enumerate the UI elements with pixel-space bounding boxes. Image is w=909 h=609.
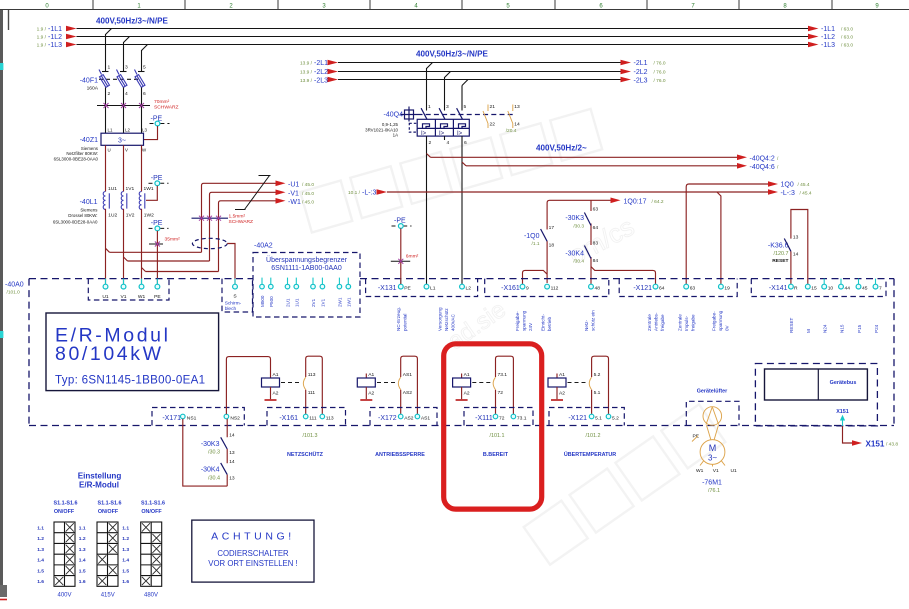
- svg-text:-1L2: -1L2: [48, 34, 62, 41]
- svg-text:schütz ein: schütz ein: [591, 310, 596, 331]
- svg-text:Gerätelüfter: Gerätelüfter: [697, 388, 728, 394]
- svg-text:spannung: spannung: [718, 310, 723, 331]
- terminal -X141:7: [875, 279, 877, 284]
- svg-text:B.BEREIT: B.BEREIT: [483, 452, 509, 458]
- svg-text:15: 15: [811, 286, 817, 292]
- svg-text:I>: I>: [439, 131, 445, 137]
- internal contact 111/113: [303, 356, 322, 414]
- svg-text:U1: U1: [731, 468, 738, 474]
- svg-text:-X121: -X121: [568, 415, 587, 422]
- svg-text:1.6: 1.6: [37, 579, 44, 585]
- terminal strip -X141 box: [751, 279, 886, 297]
- svg-text:13: 13: [514, 104, 520, 110]
- left border cyan tick B: [0, 331, 3, 338]
- svg-text:-30K4: -30K4: [201, 467, 220, 474]
- svg-text:10.1 /: 10.1 /: [348, 190, 361, 196]
- terminal -X141:45: [858, 279, 860, 284]
- -40A2 pin 2W1: [337, 278, 342, 307]
- svg-text:1.1: 1.1: [37, 526, 44, 532]
- svg-text:S1.1-S1.6: S1.1-S1.6: [98, 501, 122, 507]
- svg-text:14: 14: [793, 251, 799, 257]
- svg-text:VOR ORT EINSTELLEN !: VOR ORT EINSTELLEN !: [208, 559, 297, 568]
- aux contact 21/22: [483, 104, 495, 128]
- svg-text:-2L1: -2L1: [634, 60, 648, 67]
- svg-text:-2L1: -2L1: [314, 60, 328, 67]
- terminal -X161:113: [320, 414, 325, 419]
- svg-text:/101.3: /101.3: [303, 433, 318, 439]
- wire vertical to -40Q4 pin1: [426, 68, 428, 111]
- arrow -W1: [276, 198, 286, 204]
- svg-text:-X161: -X161: [501, 285, 520, 292]
- svg-text:Zentrale: Zentrale: [678, 314, 683, 331]
- svg-text:5: 5: [143, 65, 146, 71]
- svg-text:ÜBERTEMPERATUR: ÜBERTEMPERATUR: [564, 451, 616, 458]
- wire U -40Z1 to choke: [105, 145, 107, 191]
- svg-text:-2L2: -2L2: [314, 69, 328, 76]
- svg-text:18: 18: [549, 242, 555, 248]
- svg-text:L2: L2: [125, 128, 130, 133]
- wire -2L1: [338, 62, 621, 64]
- svg-text:-X121: -X121: [633, 285, 652, 292]
- svg-text:/ 76.0: / 76.0: [654, 61, 666, 67]
- svg-text:RESET: RESET: [789, 317, 794, 333]
- junction X U/1,5mm2: [199, 216, 204, 221]
- svg-text:potential: potential: [403, 314, 408, 331]
- wire -30K3 chain vertical: [590, 200, 592, 284]
- svg-text:112: 112: [551, 286, 559, 292]
- svg-text:80/104kW: 80/104kW: [55, 343, 164, 365]
- svg-text:1.4: 1.4: [37, 558, 44, 564]
- svg-text:A2: A2: [368, 390, 374, 396]
- svg-text:V1: V1: [713, 468, 719, 474]
- svg-text:M: M: [709, 443, 717, 453]
- svg-text:1Q0:17: 1Q0:17: [624, 198, 647, 205]
- wire W export horizontal: [146, 271, 219, 273]
- svg-text:5.1: 5.1: [594, 390, 601, 396]
- svg-text:1.5: 1.5: [122, 568, 129, 574]
- svg-text:S1.1-S1.6: S1.1-S1.6: [54, 501, 78, 507]
- svg-text:1W1: 1W1: [144, 186, 154, 192]
- svg-text:1.4: 1.4: [122, 558, 129, 564]
- wire branch diag pin2 feed: [427, 154, 431, 158]
- terminal -X172:AS2: [398, 414, 403, 419]
- -40Q4 trip block: [417, 119, 469, 136]
- svg-text:72: 72: [498, 390, 504, 396]
- terminal strip -X121 box: [619, 279, 737, 297]
- wire branch diag W to export: [142, 268, 146, 272]
- -40A2 pin M500: [260, 278, 265, 307]
- svg-text:AS1: AS1: [403, 372, 413, 378]
- svg-text:1: 1: [108, 65, 111, 71]
- svg-text:A1: A1: [464, 372, 470, 378]
- svg-text:/20.4: /20.4: [506, 128, 517, 134]
- svg-text:14: 14: [229, 459, 235, 465]
- svg-text:I>: I>: [457, 131, 463, 137]
- svg-text:1.4: 1.4: [79, 558, 86, 564]
- svg-text:NS1: NS1: [187, 415, 197, 421]
- choke -40L1 phase W: [139, 186, 154, 218]
- wire U export horizontal: [110, 251, 202, 253]
- small dashed box trip unit: [409, 123, 417, 132]
- svg-text:400V: 400V: [57, 593, 71, 599]
- watermark band lower: [443, 296, 725, 565]
- manual operator square: [401, 107, 418, 122]
- terminal -X161:9: [520, 284, 525, 289]
- terminal U1: [105, 279, 107, 284]
- wire NS1 down leg: [183, 419, 227, 486]
- Geraetebus dashed box: [755, 364, 877, 426]
- wire vertical to -40Q4 pin3: [444, 77, 446, 111]
- svg-text:/120.7: /120.7: [774, 251, 789, 257]
- terminal -X141:R: [789, 284, 794, 289]
- terminal -X121:5.1: [589, 414, 594, 419]
- cyan arrow X151: [842, 419, 844, 426]
- arrow -U1: [276, 181, 286, 187]
- terminal box -X121 bottom: [549, 408, 624, 426]
- svg-text:1.6: 1.6: [79, 579, 86, 585]
- svg-text:L2: L2: [466, 286, 472, 292]
- svg-text:1.3: 1.3: [79, 547, 86, 553]
- choke -40L1 phase U: [103, 186, 117, 218]
- svg-text:400V,50Hz/3~/N/PE: 400V,50Hz/3~/N/PE: [416, 50, 489, 59]
- svg-text:2: 2: [108, 91, 111, 97]
- arrow -2L1 source: [328, 60, 339, 66]
- svg-text:ON/OFF: ON/OFF: [54, 509, 75, 515]
- svg-text:A1: A1: [559, 372, 565, 378]
- -40A2 pin 1W1: [346, 278, 351, 307]
- terminal strip -X131 box: [366, 279, 478, 297]
- svg-text:/30.3: /30.3: [573, 224, 584, 230]
- svg-text:0V: 0V: [725, 324, 730, 331]
- svg-text:Netz-: Netz-: [584, 320, 589, 331]
- svg-text:RESET: RESET: [772, 258, 788, 264]
- svg-text:A2: A2: [559, 390, 565, 396]
- svg-text:113: 113: [326, 415, 334, 421]
- svg-text:6mm²: 6mm²: [406, 253, 419, 259]
- wire V export riser: [210, 192, 276, 261]
- svg-text:9: 9: [526, 286, 529, 292]
- svg-text:E/R-Modul: E/R-Modul: [79, 481, 119, 490]
- terminal -X172:AS1: [415, 414, 420, 419]
- svg-text:PE: PE: [154, 294, 161, 300]
- svg-text:/ 63.0: / 63.0: [841, 35, 853, 41]
- svg-text:35mm²: 35mm²: [165, 237, 181, 243]
- svg-text:W1: W1: [138, 294, 146, 300]
- svg-text:V1: V1: [121, 294, 127, 300]
- terminal -X111:73.1: [511, 414, 516, 419]
- svg-text:M: M: [806, 329, 811, 333]
- -40A2 pin P500: [269, 278, 274, 307]
- module -40A0 outline left edge: [28, 279, 30, 426]
- wire bridge term64: [591, 267, 656, 285]
- mech link coil3: [472, 382, 490, 384]
- PE terminal 1: [150, 115, 170, 126]
- svg-text:-K36.6: -K36.6: [768, 242, 789, 249]
- wire bridge term9: [523, 270, 548, 284]
- svg-text:A2: A2: [273, 390, 279, 396]
- svg-text:Impuls-: Impuls-: [684, 315, 689, 331]
- wire -1L2: [77, 36, 809, 38]
- svg-text:400V,50Hz/3~/N/PE: 400V,50Hz/3~/N/PE: [96, 17, 169, 26]
- mech link dashed -40Q4: [418, 114, 514, 116]
- wire 1Q0 riser from term63: [686, 184, 768, 284]
- internal contact 72/73.1: [493, 356, 513, 414]
- terminal box -X111: [464, 408, 533, 426]
- terminal -X141:15: [805, 284, 810, 289]
- svg-text:Antriebs-: Antriebs-: [654, 312, 659, 331]
- svg-text:-40Q4:6: -40Q4:6: [750, 164, 775, 171]
- svg-text:-40Q4:2: -40Q4:2: [750, 155, 775, 162]
- svg-text:1W2: 1W2: [144, 212, 154, 218]
- DIP switch block 2: [97, 522, 118, 586]
- svg-text:betrieb: betrieb: [547, 317, 552, 331]
- svg-text:-1L1: -1L1: [821, 26, 835, 33]
- svg-text:A1: A1: [368, 372, 374, 378]
- wire vertical phase1 to -40F1: [105, 34, 107, 72]
- arrow -1L2 dest: [808, 34, 819, 40]
- svg-text:-1L2: -1L2: [821, 34, 835, 41]
- terminal -X121:5.2: [606, 414, 611, 419]
- svg-text:/30.3: /30.3: [208, 450, 220, 456]
- svg-text:63: 63: [690, 286, 696, 292]
- svg-text:5.2: 5.2: [594, 372, 601, 378]
- wire branch diag pin6 feed: [462, 162, 466, 166]
- contact -30K3 (upper): [565, 206, 598, 231]
- svg-text:spannung: spannung: [522, 310, 527, 331]
- svg-text:-40Q4: -40Q4: [384, 112, 404, 119]
- svg-text:1.2: 1.2: [122, 536, 129, 542]
- arrow -L-:3 source: [377, 189, 388, 195]
- svg-text:2W1: 2W1: [337, 297, 342, 307]
- junction X W/1,5mm2: [216, 216, 221, 221]
- svg-text:-40Z1: -40Z1: [80, 137, 98, 144]
- svg-text:-U1: -U1: [288, 181, 299, 188]
- contactor coil UEBERTEMPERATUR: [548, 372, 566, 400]
- svg-text:1: 1: [428, 104, 431, 110]
- svg-text:/101.0: /101.0: [7, 289, 21, 295]
- svg-text:44: 44: [845, 286, 851, 292]
- svg-text:Netzschütz: Netzschütz: [444, 308, 449, 331]
- terminal -X131:L1: [424, 284, 429, 289]
- top ruler line: [0, 9, 909, 11]
- svg-text:S1.1-S1.6: S1.1-S1.6: [141, 501, 165, 507]
- wire branch diag 2L2: [445, 72, 451, 78]
- svg-text:6: 6: [464, 140, 467, 146]
- svg-text:1V1: 1V1: [320, 298, 325, 307]
- svg-text:AS1: AS1: [421, 415, 431, 421]
- svg-text:1V2: 1V2: [126, 212, 135, 218]
- svg-text:1.1: 1.1: [122, 526, 129, 532]
- wire -2L2: [338, 71, 621, 73]
- wire branch diag V to export: [124, 257, 128, 261]
- svg-text:13.9 /: 13.9 /: [300, 78, 313, 84]
- svg-text:1.9 /: 1.9 /: [37, 27, 47, 33]
- mech link -40F1: [99, 78, 140, 80]
- svg-text:/ 45.4: / 45.4: [800, 190, 812, 196]
- svg-text:SCHWARZ: SCHWARZ: [154, 104, 179, 110]
- svg-text:1U2: 1U2: [108, 212, 117, 218]
- svg-text:17: 17: [549, 225, 555, 231]
- terminal -X161:111: [303, 414, 308, 419]
- svg-text:-1L3: -1L3: [48, 42, 62, 49]
- svg-text:-X131: -X131: [378, 285, 397, 292]
- svg-text:1U1: 1U1: [294, 298, 299, 307]
- wire phase1 -40F1 to -40Z1: [105, 88, 107, 134]
- svg-text:Einricht-: Einricht-: [541, 314, 546, 331]
- arrow -2L2 dest: [621, 69, 632, 75]
- contact -K36.6 RESET: [768, 210, 808, 285]
- terminal strip -X161 box: [485, 279, 609, 297]
- wire W export riser: [219, 201, 276, 272]
- svg-text:5.1: 5.1: [595, 415, 602, 421]
- svg-text:13.9 /: 13.9 /: [300, 61, 313, 67]
- wire PE2 to choke core: [146, 186, 157, 201]
- svg-text:W1: W1: [696, 468, 704, 474]
- svg-text:V: V: [125, 148, 128, 153]
- arrow -V1: [276, 190, 286, 196]
- bottom-left red tick: [0, 599, 7, 601]
- svg-text:-40F1: -40F1: [80, 78, 98, 85]
- svg-text:84: 84: [593, 258, 599, 264]
- svg-text:113: 113: [308, 372, 316, 378]
- wire -1L3: [77, 44, 809, 46]
- svg-text:Typ: 6SN1145-1BB00-0EA1: Typ: 6SN1145-1BB00-0EA1: [55, 374, 205, 387]
- svg-text:A2: A2: [464, 390, 470, 396]
- wire branch diagonal L1: [106, 29, 112, 35]
- wire pin2 down to -X131 L1: [426, 136, 428, 284]
- svg-text:13: 13: [229, 476, 235, 482]
- svg-text:-X172: -X172: [378, 415, 397, 422]
- arrow -1L2 source: [66, 34, 77, 40]
- svg-text:U1: U1: [102, 294, 109, 300]
- arrow -40Q4:6: [737, 163, 747, 169]
- svg-text:1.2: 1.2: [37, 536, 44, 542]
- svg-text:-W1: -W1: [288, 199, 301, 206]
- svg-text:3~: 3~: [118, 137, 126, 144]
- DIP row labels left of block1: [37, 526, 44, 586]
- wire X151 out: [843, 426, 853, 443]
- wire branch diag U to export: [106, 248, 110, 252]
- svg-text:-1Q0: -1Q0: [524, 233, 540, 240]
- svg-text:19: 19: [724, 286, 730, 292]
- svg-text:-40A0: -40A0: [5, 281, 24, 288]
- svg-text:/30.4: /30.4: [573, 258, 584, 264]
- arrow -1L1 source: [66, 26, 77, 32]
- svg-text:21: 21: [490, 104, 496, 110]
- svg-text:-30K3: -30K3: [565, 215, 584, 222]
- DIP row labels right of block1: [79, 526, 86, 586]
- fan motor leads: [707, 425, 711, 439]
- svg-text:480V: 480V: [144, 593, 158, 599]
- choke -40L1 phase V: [121, 186, 135, 218]
- terminal S: [234, 279, 236, 284]
- module -40A0 outline bottom edge: [29, 425, 894, 427]
- left border cyan tick A: [0, 63, 3, 70]
- terminal -X131:PE: [400, 279, 402, 284]
- svg-text:NS2: NS2: [230, 415, 240, 421]
- wire V -40Z1 to choke: [123, 145, 125, 191]
- wire -L-:3 rail: [387, 191, 768, 193]
- wire NS2 riser to coil1: [226, 357, 270, 415]
- junction X phase1/70mm2: [104, 103, 109, 108]
- svg-text:2U1: 2U1: [286, 298, 291, 307]
- junction X phase2/70mm2: [121, 103, 126, 108]
- svg-text:-X141: -X141: [769, 285, 788, 292]
- cable marker 1,5mm2 line: [192, 217, 229, 219]
- page margin mark top-left: [8, 10, 10, 30]
- svg-text:-40L1: -40L1: [80, 199, 98, 206]
- E/R-Modul info box: [46, 313, 219, 391]
- wire 400V feed B: [466, 165, 737, 167]
- svg-text:R: R: [794, 286, 798, 292]
- svg-text:L1: L1: [430, 286, 436, 292]
- svg-text:Netzfilter 80KW:: Netzfilter 80KW:: [66, 151, 98, 156]
- svg-text:400VAC: 400VAC: [451, 314, 456, 331]
- svg-text:3: 3: [446, 104, 449, 110]
- svg-text:-V1: -V1: [288, 190, 299, 197]
- svg-text:73.1: 73.1: [498, 372, 508, 378]
- svg-text:/101.2: /101.2: [586, 433, 601, 439]
- mech link coil2: [377, 382, 397, 384]
- svg-text:/ 63.0: / 63.0: [841, 27, 853, 33]
- module -40A0 outline top edge: [29, 278, 253, 280]
- svg-text:7: 7: [879, 286, 882, 292]
- svg-text:1.6: 1.6: [122, 579, 129, 585]
- svg-text:I>: I>: [421, 131, 427, 137]
- svg-text:1,5mm²: 1,5mm²: [229, 214, 246, 220]
- svg-text:14: 14: [229, 433, 235, 439]
- terminal -X121:19: [719, 284, 724, 289]
- mech link coil4: [568, 382, 587, 384]
- terminal box -X171: [152, 408, 244, 426]
- svg-text:160A: 160A: [87, 86, 99, 92]
- svg-text:X151: X151: [866, 439, 885, 448]
- svg-text:P15: P15: [857, 324, 862, 333]
- svg-text:/1.1: /1.1: [531, 241, 539, 247]
- svg-text:X151: X151: [836, 409, 849, 415]
- svg-text:/ 76.0: / 76.0: [654, 70, 666, 76]
- wire V export horizontal: [128, 260, 210, 262]
- wire PE3 down to module PE: [156, 231, 158, 285]
- PE terminal 3: [149, 220, 169, 231]
- svg-text:415V: 415V: [101, 593, 115, 599]
- svg-text:-76M1: -76M1: [702, 480, 722, 487]
- wire shield drain to S: [227, 244, 235, 285]
- wire phase2 -40F1 to -40Z1: [123, 88, 125, 134]
- arrow -2L3 source: [328, 77, 339, 83]
- svg-text:1.1: 1.1: [79, 526, 86, 532]
- svg-text:-2L2: -2L2: [634, 69, 648, 76]
- svg-text:/ 76.0: / 76.0: [654, 78, 666, 84]
- wire branch diag 2L3: [462, 80, 468, 86]
- svg-text:Schirm-: Schirm-: [225, 301, 242, 307]
- svg-text:3~: 3~: [708, 454, 717, 463]
- svg-text:6SN1111-1AB00-0AA0: 6SN1111-1AB00-0AA0: [271, 265, 342, 272]
- fuse -40F1 pole1: [99, 65, 111, 98]
- svg-text:/30.4: /30.4: [208, 475, 220, 481]
- svg-text:6SL3000-0BE28-0AA0: 6SL3000-0BE28-0AA0: [54, 157, 99, 162]
- DIP row labels right of block2: [122, 526, 129, 586]
- junction X V/1,5mm2: [207, 216, 212, 221]
- svg-text:Überspannungsbegrenzer: Überspannungsbegrenzer: [266, 256, 348, 264]
- svg-text:AS2: AS2: [403, 390, 413, 396]
- terminal PE: [156, 279, 158, 284]
- mech link coil1: [281, 382, 302, 384]
- terminal -X111:72: [493, 414, 498, 419]
- svg-text:Siemens: Siemens: [80, 207, 98, 212]
- line filter -40Z1: [101, 128, 147, 153]
- svg-text:Zentrale: Zentrale: [647, 314, 652, 331]
